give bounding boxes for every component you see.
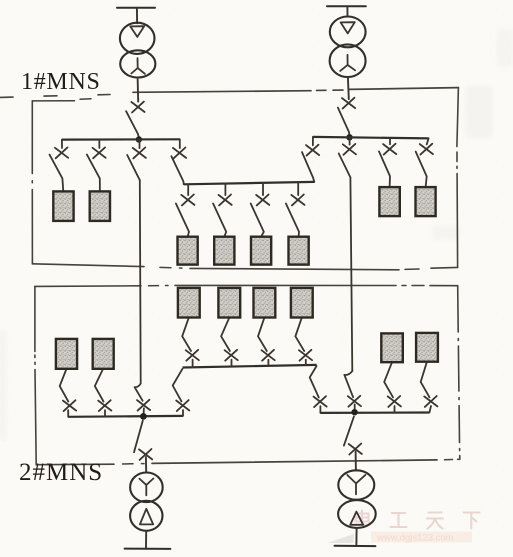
- transformer T4 wye winding: [338, 470, 374, 499]
- transformer T1 delta winding: [120, 23, 155, 54]
- load cubicle F3: [254, 288, 276, 318]
- load cubicle D1: [56, 339, 77, 369]
- transformer T1 wye winding: [120, 50, 155, 77]
- feeder QA2 stub and blade: [87, 140, 100, 192]
- wire T1 LV lead to incomer: [137, 77, 140, 101]
- bus-tie QT1 stub and blade: [127, 140, 140, 181]
- bus-tie switch QT2 upper (x-mark): [343, 144, 356, 155]
- feeder QF3L stub and blade: [258, 318, 268, 366]
- incomer breaker QF2 (x-mark): [342, 98, 355, 109]
- feeder QF1L stub and blade: [182, 318, 192, 368]
- load cubicle B2: [416, 187, 436, 216]
- bus 2#MNS right section: [320, 411, 429, 414]
- feeder QB4 stub and blade: [416, 138, 429, 187]
- wire T1 HV lead: [136, 8, 138, 24]
- load cubicle F2: [218, 288, 240, 318]
- sectionaliser QA4 stub and blade: [171, 139, 183, 184]
- incomer disconnect blade QF4: [344, 417, 356, 471]
- incomer breaker QF1 (x-mark): [131, 102, 144, 113]
- bus-tie switch QT1 upper (x-mark): [133, 148, 146, 159]
- incomer disconnect blade QF1: [126, 111, 139, 136]
- feeder switch QF4L (x-mark): [299, 350, 312, 361]
- feeder switch QC1 (x-mark): [181, 195, 194, 206]
- load cubicle F1: [178, 288, 200, 318]
- node K3 (2#MNS left bus junction): [140, 413, 147, 420]
- sectionaliser switch QB1 (x-mark): [306, 145, 319, 156]
- feeder switch QF1L (x-mark): [186, 350, 199, 361]
- feeder QB3 stub and blade: [379, 138, 390, 187]
- transformer T2 HV source bar: [327, 5, 366, 7]
- 2#MNS enclosure right border: [458, 286, 460, 460]
- sectionaliser QD4 stub and blade: [173, 369, 183, 416]
- transformer T3 HV source bar: [125, 548, 171, 550]
- feeder switch QC4 (x-mark): [291, 195, 304, 206]
- load cubicle C3: [251, 237, 271, 265]
- 2#MNS section enclosure top border: [35, 285, 458, 286]
- feeder QC3 stub and blade: [251, 183, 264, 237]
- incomer breaker QF4 (x-mark): [349, 444, 362, 455]
- bus-tie QT2 lower blade and stub: [344, 371, 354, 412]
- bus-tie QT2 stub and blade: [339, 137, 351, 177]
- 1#MNS enclosure left border: [32, 99, 91, 264]
- incomer breaker QF3 (x-mark): [139, 449, 152, 460]
- feeder switch QA1 (x-mark): [55, 147, 68, 158]
- load cubicle A1: [53, 191, 73, 221]
- feeder switch QE4 (x-mark): [424, 396, 437, 407]
- feeder switch QD1 (x-mark): [63, 400, 76, 411]
- feeder QE4 stub and blade: [421, 362, 431, 413]
- 2#MNS enclosure bottom border: [36, 459, 460, 464]
- load cubicle C1: [178, 237, 198, 265]
- transformer T3 wye winding: [130, 473, 163, 503]
- sectionaliser switch QA4 (x-mark): [173, 148, 186, 159]
- wire T2 HV lead: [346, 6, 348, 16]
- label 1#MNS: [21, 69, 101, 95]
- feeder QD1 stub and blade: [60, 369, 69, 417]
- bus-tie QT1 lower blade and stub: [135, 384, 144, 417]
- sectionaliser QB1 stub and blade: [302, 137, 314, 182]
- char xia: [464, 513, 480, 529]
- load cubicle B1: [379, 187, 399, 216]
- load cubicle E1: [381, 333, 403, 362]
- node K1 (1#MNS left bus junction): [136, 136, 142, 142]
- feeder switch QC2 (x-mark): [219, 195, 232, 206]
- 1#MNS enclosure right border: [457, 88, 459, 268]
- transformer T1 HV source bar: [117, 7, 155, 9]
- feeder switch QB4 (x-mark): [420, 144, 433, 155]
- node K2 (1#MNS right bus junction): [346, 134, 352, 140]
- transformer T4 HV source bar: [335, 545, 376, 547]
- bus 2#MNS centre section: [183, 365, 317, 368]
- node K4 (2#MNS right bus junction): [351, 409, 357, 415]
- feeder QC1 stub and blade: [176, 184, 189, 237]
- feeder switch QB3 (x-mark): [383, 144, 396, 155]
- feeder QF4L stub and blade: [295, 318, 305, 366]
- bus 1#MNS left section: [62, 138, 180, 141]
- feeder QE3 stub and blade: [384, 362, 394, 412]
- feeder switch QA2 (x-mark): [93, 147, 106, 158]
- feeder switch QC3 (x-mark): [256, 195, 269, 206]
- feeder QC2 stub and blade: [213, 184, 226, 237]
- 2#MNS enclosure left border: [35, 286, 36, 464]
- incomer disconnect blade QF2: [338, 108, 350, 135]
- 1#MNS section enclosure dash-dot border (top bus line): [0, 88, 458, 98]
- load cubicle A2: [90, 191, 110, 221]
- bus-tie switch QT2 lower (x-mark): [348, 396, 361, 407]
- incomer disconnect blade QF3: [134, 421, 146, 473]
- load cubicle D2: [93, 339, 114, 369]
- transformer T3 delta winding: [130, 501, 162, 531]
- sectionaliser switch QE1 (x-mark): [314, 396, 327, 407]
- 1#MNS enclosure bottom border: [32, 264, 457, 270]
- feeder switch QE3 (x-mark): [388, 396, 401, 407]
- bus 1#MNS right section: [313, 137, 429, 139]
- char dian: [356, 511, 370, 525]
- load cubicle C4: [289, 237, 309, 265]
- feeder QF2L stub and blade: [221, 318, 231, 367]
- feeder switch QD2 (x-mark): [98, 400, 111, 411]
- wire bus-tie left riser: [139, 180, 142, 383]
- feeder QA1 stub and blade: [50, 140, 64, 192]
- transformer T2 wye winding: [330, 44, 366, 77]
- feeder switch QF3L (x-mark): [262, 350, 275, 361]
- load cubicle C2: [214, 237, 234, 265]
- feeder switch QF2L (x-mark): [225, 350, 238, 361]
- transformer T4 delta winding: [338, 500, 376, 528]
- label 2#MNS: [19, 459, 103, 486]
- wire T3 HV lead: [145, 531, 147, 549]
- feeder QD2 stub and blade: [95, 369, 105, 417]
- load cubicle E2: [416, 333, 438, 362]
- feeder QC4 stub and blade: [286, 182, 299, 237]
- bus 2#MNS left section: [68, 415, 183, 418]
- char tian: [427, 513, 443, 529]
- wire bus-tie right riser: [350, 177, 352, 371]
- sectionaliser QE1 stub and blade: [310, 366, 321, 413]
- wire T2 LV lead to incomer: [347, 77, 350, 99]
- sectionaliser switch QD4 (x-mark): [176, 400, 189, 411]
- bus-tie switch QT1 lower (x-mark): [137, 400, 150, 411]
- transformer T2 delta winding: [330, 17, 366, 48]
- char gong: [391, 513, 407, 527]
- bus 1#MNS centre section: [184, 182, 315, 184]
- wire T4 HV lead: [355, 528, 357, 545]
- load cubicle F4: [291, 288, 313, 318]
